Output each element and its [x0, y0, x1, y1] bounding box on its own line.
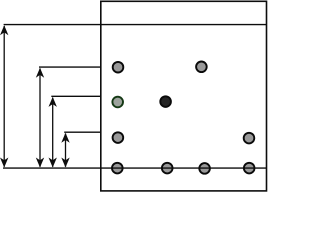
pad row4 #1	[112, 163, 123, 174]
dimension extension line 4	[64, 131, 101, 133]
dimension arrow C (row2 to baseline)	[49, 97, 57, 168]
dimension arrow D (row3 to baseline)	[61, 133, 69, 168]
dimension extension line 1 (top, full width)	[4, 24, 267, 26]
package outline box	[101, 1, 267, 191]
pad row1 right	[196, 62, 207, 73]
pad row4 #2	[162, 163, 173, 174]
dimension arrow B (row1 to baseline)	[36, 68, 44, 168]
pad row1 left	[113, 62, 124, 73]
dimension arrow A (overall height)	[0, 25, 8, 167]
pad row2 dark (drill / hole)	[160, 96, 171, 107]
pad row4 #4	[244, 163, 255, 174]
pad row3 left	[113, 132, 124, 143]
dimension extension line 2	[39, 66, 101, 68]
pad row4 #3	[199, 163, 210, 174]
pad row2 left (green ring, selected)	[112, 97, 123, 108]
baseline through bottom pad row	[3, 167, 267, 169]
pad row3 right	[244, 133, 255, 144]
dimension extension line 3	[51, 95, 101, 97]
